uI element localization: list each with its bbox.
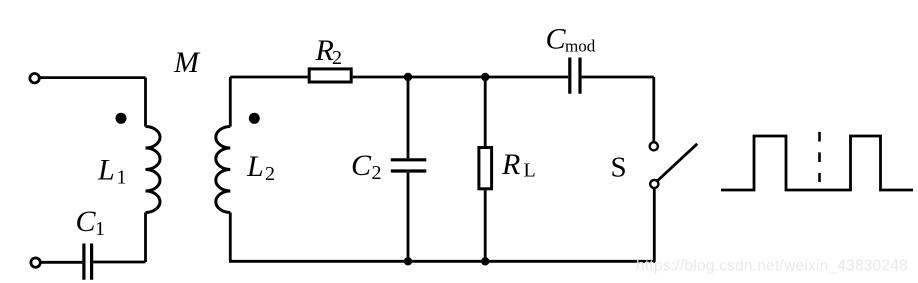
node top RL junction bbox=[481, 73, 489, 81]
svg-text:M: M bbox=[173, 46, 201, 79]
terminal bottom-left bbox=[31, 258, 40, 267]
capacitor C1 bbox=[84, 244, 92, 280]
inductor L1 bbox=[146, 127, 161, 213]
switch S top contact bbox=[650, 142, 658, 150]
svg-text:C: C bbox=[76, 205, 97, 238]
wire RL branch upper bbox=[484, 77, 487, 147]
svg-text:R: R bbox=[315, 34, 334, 67]
wire bottom bbox=[229, 260, 656, 263]
resistor R2 bbox=[309, 69, 351, 82]
switch S bottom contact bbox=[650, 180, 658, 188]
wire C2 branch lower bbox=[407, 173, 410, 262]
svg-text:C: C bbox=[351, 149, 372, 182]
svg-text:1: 1 bbox=[95, 218, 105, 240]
svg-text:C: C bbox=[546, 23, 567, 56]
svg-text:2: 2 bbox=[265, 163, 275, 185]
svg-text:mod: mod bbox=[565, 37, 596, 56]
svg-text:1: 1 bbox=[117, 167, 127, 189]
wire bottom-left to C1 bbox=[93, 261, 145, 264]
svg-text:S: S bbox=[611, 152, 627, 184]
switch S blade bbox=[658, 144, 698, 181]
svg-text:R: R bbox=[501, 148, 520, 181]
wire switch to bottom bbox=[653, 188, 656, 261]
wire C1 to terminal bbox=[40, 261, 82, 264]
wire L2 bottom vertical bbox=[229, 213, 232, 262]
dot L1 polarity bbox=[116, 113, 127, 124]
wire top: L2 to R2 bbox=[230, 76, 307, 79]
wire top: Cmod to corner bbox=[582, 76, 654, 79]
wire C2 branch upper bbox=[407, 77, 410, 158]
inductor L2 bbox=[216, 127, 231, 213]
svg-text:L: L bbox=[97, 154, 115, 187]
wire top-left horizontal bbox=[39, 76, 145, 79]
node bottom RL junction bbox=[481, 257, 489, 265]
capacitor Cmod bbox=[570, 58, 580, 94]
node bottom C2 junction bbox=[404, 257, 412, 265]
wire right vertical to switch bbox=[652, 77, 655, 142]
svg-text:2: 2 bbox=[372, 162, 382, 184]
svg-text:L: L bbox=[246, 150, 264, 183]
svg-text:2: 2 bbox=[332, 47, 342, 69]
wire L1 top vertical bbox=[144, 78, 147, 127]
resistor RL bbox=[479, 148, 492, 189]
waveform dashed centerline bbox=[818, 132, 821, 182]
wire top: R2 to Cmod bbox=[353, 76, 569, 79]
terminal top-left bbox=[30, 74, 39, 83]
wire L1 bottom vertical bbox=[144, 213, 147, 263]
svg-text:L: L bbox=[524, 160, 536, 182]
wire RL branch lower bbox=[484, 190, 487, 261]
svg-text:https://blog.csdn.net/weixin_4: https://blog.csdn.net/weixin_43830248 bbox=[636, 258, 908, 275]
node top C2 junction bbox=[404, 73, 412, 81]
dot L2 polarity bbox=[249, 113, 260, 124]
capacitor C2 bbox=[391, 160, 427, 171]
waveform pulse train bbox=[721, 136, 913, 190]
wire L2 top vertical bbox=[229, 77, 232, 127]
